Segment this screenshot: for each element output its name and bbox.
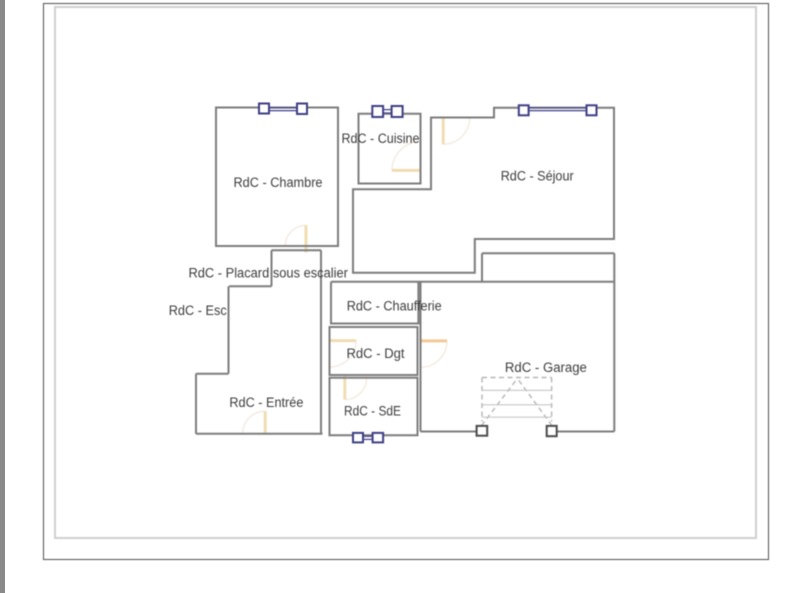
svg-text:RdC - Entrée: RdC - Entrée — [229, 395, 303, 410]
svg-text:RdC - SdE: RdC - SdE — [344, 404, 401, 419]
svg-text:RdC - Cuisine: RdC - Cuisine — [342, 131, 420, 146]
svg-text:RdC - Chaufferie: RdC - Chaufferie — [347, 299, 442, 314]
svg-text:RdC - Garage: RdC - Garage — [505, 360, 587, 375]
svg-text:RdC - Séjour: RdC - Séjour — [501, 168, 574, 183]
svg-text:RdC - Chambre: RdC - Chambre — [234, 175, 323, 190]
svg-text:RdC - Esc: RdC - Esc — [169, 303, 227, 318]
svg-text:RdC - Placard sous escalier: RdC - Placard sous escalier — [188, 266, 348, 281]
svg-text:RdC - Dgt: RdC - Dgt — [347, 346, 405, 361]
